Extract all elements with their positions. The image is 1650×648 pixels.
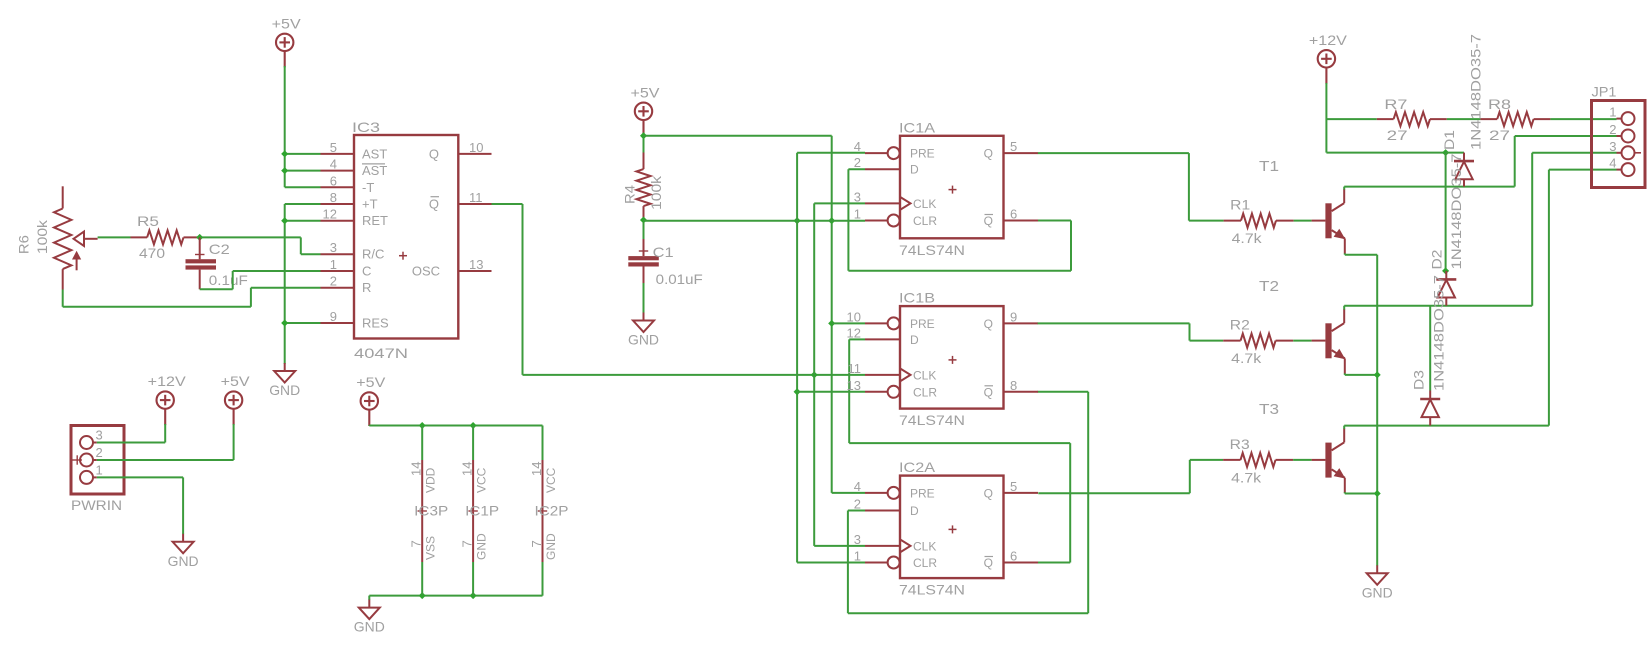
junction D2 top node (1442, 267, 1449, 274)
svg-text:1N4148DO35-7: 1N4148DO35-7 (1448, 153, 1464, 269)
junction clock junction (811, 371, 818, 378)
JP1 pin 4 pad (1622, 163, 1635, 176)
wire gates right v (542, 426, 544, 461)
transistor T1 NPN (1312, 220, 1326, 222)
PWRIN origin cross (73, 455, 83, 464)
wire pwr pin1 v (182, 477, 184, 534)
capacitor C1 0.01uF (643, 239, 645, 256)
pin R8 lead right (1534, 118, 1551, 120)
svg-text:R2: R2 (1230, 317, 1250, 333)
wire reset to IC2A pin1 (797, 562, 865, 564)
svg-text:PRE: PRE (910, 147, 935, 161)
wire IC1B D loop h1 (849, 338, 865, 340)
wire R4 top wire (643, 135, 645, 153)
T3 emitter arrow (1334, 468, 1346, 478)
svg-text:T1: T1 (1259, 158, 1279, 175)
svg-text:2: 2 (96, 445, 103, 460)
wire gates left gnd v (368, 596, 370, 600)
svg-text:100k: 100k (34, 219, 50, 254)
pin IC2P pin 14 VCC (542, 460, 544, 511)
svg-text:1N4148DO35-7: 1N4148DO35-7 (1468, 34, 1484, 150)
wire IC1A D loop h2 (848, 270, 1071, 272)
svg-text:9: 9 (1010, 309, 1017, 324)
pin IC1B pin 10 PRE (865, 322, 888, 324)
flip-flop IC2A 74LS74N body (900, 476, 1004, 578)
svg-text:2: 2 (330, 274, 337, 289)
pin IC1B pin 8 Qbar (1004, 391, 1039, 393)
pin IC2A pin 4 PRE (865, 492, 888, 494)
wire Q1 to R1 (1189, 220, 1224, 222)
pin IC3 pin 5 (AST) (321, 153, 355, 155)
wire phase2 row (1344, 305, 1532, 307)
junction gnd pin9 (281, 319, 288, 326)
wire +12V to R7 (1326, 118, 1376, 120)
svg-text:Q: Q (984, 317, 993, 331)
pin JP1 pin 1 stub (1617, 118, 1622, 120)
pin R3 lead left (1223, 459, 1240, 461)
wire Q2 to R2 (1190, 340, 1224, 342)
wire pwr pin1 h (97, 476, 183, 478)
pin R1 lead left (1224, 220, 1241, 222)
wire reset to IC1A pin4 (797, 152, 865, 154)
wire IC3P bottom wire (421, 562, 423, 596)
svg-text:AST: AST (362, 146, 387, 161)
wire +12V v (1325, 83, 1327, 153)
PWRIN pin 1 pad (80, 471, 93, 484)
IC2A CLR bubble (888, 557, 900, 569)
wire Q3 v (1189, 460, 1191, 493)
wire phase3 to JP1 pin4 (1549, 169, 1617, 171)
wire IC2A D loop h2 (848, 612, 1088, 614)
svg-text:D: D (910, 504, 919, 518)
svg-text:R3: R3 (1230, 436, 1250, 452)
svg-text:3: 3 (330, 240, 337, 255)
wire T1 emitter down (1344, 253, 1346, 254)
junction rail ic1p (470, 422, 477, 429)
resistor R5 470 (147, 230, 183, 244)
wire preset to IC1B pin10 (832, 322, 865, 324)
resistor R8 27 (1497, 112, 1533, 126)
diode D3 1N4148 (1429, 391, 1431, 400)
wire pwr pin3 h (97, 442, 165, 444)
svg-text:-T: -T (362, 180, 374, 195)
wire R5 to IC3 pin3 (301, 253, 321, 255)
wire IC3 Q11 v (522, 204, 524, 375)
wire IC2A Q6 wire (1038, 562, 1070, 564)
ground symbol emitter ground (1367, 565, 1388, 585)
wire IC3P top wire (421, 426, 423, 461)
IC1A CLK wedge (900, 197, 911, 210)
pin IC3 pin 4 (AST) (321, 170, 355, 172)
pin PWRIN pin 2 stub (93, 459, 97, 461)
svg-text:IC1A: IC1A (899, 119, 936, 135)
pin JP1 pin 2 stub (1617, 135, 1622, 137)
resistor R1 4.7k (1241, 214, 1276, 228)
pin IC2A pin 6 Qbar (1004, 562, 1039, 564)
ground symbol PWRIN ground (173, 534, 194, 554)
pin IC3P pin 14 VDD (421, 460, 423, 511)
pin R4 lead top (643, 153, 645, 170)
pin IC2A pin 1 CLR (865, 562, 888, 564)
svg-text:D: D (910, 163, 919, 177)
svg-text:GND: GND (628, 332, 659, 348)
wire R4 to C1 (643, 223, 645, 239)
IC1A CLR bubble (888, 215, 900, 227)
wire IC1B D loop v2 (1069, 443, 1071, 562)
svg-text:GND: GND (1362, 584, 1393, 600)
junction brail ic3p (419, 592, 426, 599)
wire phase1 riser (1514, 136, 1516, 187)
transistor T2 NPN (1312, 340, 1326, 342)
wire gnd branch pin12 (285, 220, 321, 222)
svg-text:7: 7 (460, 540, 475, 547)
svg-text:+12V: +12V (148, 373, 187, 389)
wire clock net long h (523, 374, 866, 376)
IC1B CLR bubble (888, 386, 900, 398)
svg-text:+5V: +5V (272, 15, 302, 31)
svg-text:CLR: CLR (913, 385, 937, 399)
wire pwr +12V v (164, 424, 166, 443)
pin IC1P pin 14 VCC (472, 460, 474, 511)
T1 emitter arrow (1334, 229, 1346, 239)
wire T3 collector up (1343, 426, 1345, 429)
IC U- IC3 4047N body (354, 135, 458, 339)
svg-text:9: 9 (330, 309, 337, 324)
svg-text:4: 4 (1609, 156, 1616, 171)
svg-text:13: 13 (847, 378, 861, 393)
wire emitter rail v (1376, 255, 1378, 566)
svg-text:+T: +T (362, 197, 378, 212)
wire +5V to IC3 vcc pins (284, 66, 286, 187)
IC1B PRE bubble (888, 317, 900, 329)
wire diode rail v (1445, 153, 1447, 271)
svg-text:2: 2 (1609, 122, 1616, 137)
svg-text:VDD: VDD (424, 467, 438, 493)
svg-text:3: 3 (96, 428, 103, 443)
JP1 pin 3 pad (1622, 146, 1635, 159)
pin IC2P pin 7 GND (542, 512, 544, 562)
pin IC1A pin 1 CLR (865, 220, 888, 222)
svg-text:D1: D1 (1441, 130, 1457, 150)
junction R4 bottom node (640, 216, 647, 223)
svg-text:D: D (910, 333, 919, 347)
pin IC3 pin 1 (C) (321, 270, 355, 272)
pin R7 lead left (1377, 118, 1394, 120)
wire IC1B Q8 wire (1038, 391, 1089, 393)
svg-text:R/C: R/C (362, 247, 384, 262)
svg-text:14: 14 (460, 462, 475, 476)
wire IC3 Q11 h (492, 203, 523, 205)
IC2A PRE bubble (888, 487, 900, 499)
wire preset to IC2A pin4 (832, 492, 865, 494)
wire C2 to pin1 b (232, 271, 234, 289)
pin R2 lead left (1223, 340, 1240, 342)
pin R2 lead right (1276, 340, 1294, 342)
junction rail ic3p (419, 422, 426, 429)
svg-text:RES: RES (362, 316, 389, 331)
flip-flop IC1B 74LS74N body (900, 306, 1004, 409)
supply symbol P+12V pwr (157, 391, 174, 425)
IC2A plus mark (949, 525, 957, 533)
wire clock to IC1A v (813, 203, 815, 546)
svg-text:5: 5 (330, 140, 337, 155)
PWRIN pin 2 pad (80, 454, 93, 467)
wire clock to IC2A h (814, 545, 865, 547)
svg-text:CLK: CLK (913, 197, 936, 211)
pin IC3 pin 6 (-T) (321, 186, 355, 188)
wire IC2A D loop v1 (847, 511, 849, 614)
pin IC1B pin 9 Q (1004, 322, 1039, 324)
svg-text:R: R (362, 280, 371, 295)
pin IC1A pin 3 CLK (865, 202, 900, 204)
svg-text:+5V: +5V (221, 373, 251, 389)
svg-text:10: 10 (847, 309, 861, 324)
svg-text:74LS74N: 74LS74N (899, 412, 965, 428)
wire Q3 to R3 (1190, 459, 1223, 461)
svg-text:PRE: PRE (910, 317, 935, 331)
connector PWRIN body (71, 426, 124, 495)
svg-text:RET: RET (362, 213, 388, 228)
pin R7 lead right (1430, 118, 1447, 120)
wire IC2P bottom wire (542, 562, 544, 596)
svg-text:4047N: 4047N (354, 345, 408, 361)
svg-text:Q: Q (984, 385, 993, 399)
resistor R7 27 (1394, 112, 1430, 126)
pin IC3 pin 2 (R) (321, 287, 355, 289)
svg-text:74LS74N: 74LS74N (899, 242, 965, 258)
IC2P origin cross (538, 506, 547, 515)
pin IC2A pin 5 Q (1004, 492, 1039, 494)
resistor R3 4.7k (1241, 453, 1276, 467)
capacitor C2 0.1uF (199, 237, 201, 259)
junction brail ic1p (470, 592, 477, 599)
svg-text:11: 11 (848, 361, 862, 376)
svg-text:GND: GND (544, 533, 558, 560)
svg-text:3: 3 (854, 189, 861, 204)
wire T1 collector up (1343, 187, 1345, 190)
svg-text:IC1B: IC1B (899, 290, 935, 306)
R6 wiper arrow (74, 232, 85, 247)
svg-text:Q: Q (984, 556, 993, 570)
svg-text:R7: R7 (1384, 96, 1407, 112)
svg-text:C2: C2 (209, 241, 230, 257)
svg-text:27: 27 (1387, 127, 1408, 143)
svg-text:8: 8 (1010, 378, 1017, 393)
wire phase2 riser (1531, 153, 1533, 306)
pin R4 lead bottom (643, 206, 645, 223)
wire IC2A D loop v2 (1087, 392, 1089, 614)
svg-text:Q: Q (429, 197, 439, 212)
wire IC1B D loop v1 (848, 339, 850, 443)
pin IC1B pin 11 CLK (865, 374, 900, 376)
svg-text:0.1uF: 0.1uF (209, 272, 248, 288)
svg-text:R5: R5 (137, 213, 159, 229)
wire IC1B D loop h2 (849, 442, 1070, 444)
svg-text:4.7k: 4.7k (1231, 350, 1262, 366)
wire phase1 to JP1 pin2 (1515, 135, 1617, 137)
C1 origin cross (639, 246, 648, 255)
svg-text:C1: C1 (653, 244, 674, 260)
R6 adjust arrow (76, 258, 78, 270)
potentiometer R6 100k (62, 186, 64, 208)
pin IC1A pin 5 Q (1004, 152, 1039, 154)
wire reset to IC1B pin13 (797, 391, 865, 393)
IC1A plus mark (949, 186, 957, 194)
pin R3 lead right (1276, 459, 1294, 461)
wire phase3 riser (1548, 170, 1550, 426)
wire Q1 h (1038, 152, 1189, 154)
pin IC1A pin 4 PRE (865, 152, 888, 154)
wire clock to IC1A h (814, 202, 865, 204)
wire rail to D1 (1446, 152, 1464, 154)
wire R2 to T2 (1293, 340, 1311, 342)
IC1B CLK wedge (900, 368, 911, 381)
svg-text:1: 1 (854, 549, 861, 564)
wire T2 emitter h (1345, 374, 1377, 376)
svg-text:GND: GND (354, 619, 385, 635)
svg-text:Q: Q (984, 147, 993, 161)
pin R8 lead left (1480, 118, 1497, 120)
svg-text:Q: Q (984, 486, 993, 500)
svg-text:14: 14 (409, 462, 424, 476)
junction emitter T3 (1374, 490, 1381, 497)
ground symbol C1 ground (633, 313, 654, 333)
wire preset rail v (831, 136, 833, 493)
pin JP1 pin 4 stub (1617, 169, 1622, 171)
C2 origin cross (195, 250, 205, 259)
wire pwr +5V v (233, 424, 235, 460)
svg-text:VCC: VCC (474, 467, 488, 493)
pin IC3 pin 10 (Q) (458, 153, 491, 155)
junction R4 top node (640, 132, 647, 139)
svg-text:1N4148DO35-7: 1N4148DO35-7 (1431, 275, 1447, 391)
supply symbol P+12V right (1318, 50, 1335, 84)
svg-text:VCC: VCC (544, 467, 558, 493)
pin IC1A pin 6 Qbar (1004, 220, 1039, 222)
wire IC1P top wire (472, 426, 474, 461)
wire C1 to gnd (643, 283, 645, 313)
svg-text:D2: D2 (1429, 249, 1445, 269)
junction +5V pin4 (281, 167, 288, 174)
pin IC2A pin 3 CLK (865, 545, 900, 547)
svg-text:13: 13 (469, 257, 483, 272)
IC1A PRE bubble (888, 147, 900, 159)
svg-text:R8: R8 (1488, 96, 1511, 112)
ground symbol IC3 ground (274, 363, 295, 383)
wire R6 bottom h (63, 306, 251, 308)
transistor T3 NPN (1312, 459, 1326, 461)
JP1 pin 2 pad (1622, 130, 1635, 143)
svg-text:11: 11 (469, 190, 483, 205)
wire R5 to IC3 riser h (200, 236, 301, 238)
wire IC1A D loop h1 (848, 168, 865, 170)
wire D3 feed (1429, 306, 1431, 391)
wire C2 to pin1 c (233, 270, 321, 272)
svg-text:4: 4 (854, 139, 861, 154)
svg-text:IC3: IC3 (352, 119, 380, 135)
svg-text:1: 1 (854, 207, 861, 222)
svg-text:IC1P: IC1P (465, 502, 499, 518)
wire Q3 h (1038, 492, 1190, 494)
svg-text:Q: Q (429, 146, 439, 161)
svg-text:12: 12 (847, 325, 861, 340)
junction gnd pin12 (281, 217, 288, 224)
svg-text:4.7k: 4.7k (1232, 230, 1263, 246)
pin IC2A pin 2 D (865, 510, 900, 512)
wire pwr pin2 h (97, 459, 234, 461)
diode D1 1N4148 (1463, 153, 1465, 162)
pin IC3P pin 7 VSS (421, 512, 423, 562)
svg-text:4: 4 (854, 479, 861, 494)
wire Q2 v (1189, 323, 1191, 340)
wire R3 to T3 (1293, 459, 1312, 461)
svg-text:1: 1 (1609, 105, 1616, 120)
svg-text:5: 5 (1010, 139, 1017, 154)
junction diode rail node (1442, 149, 1449, 156)
pin IC3 pin 13 (OSC) (458, 270, 491, 272)
svg-text:GND: GND (168, 553, 199, 569)
wire gates top rail a (368, 425, 370, 428)
wire Q2 h (1038, 322, 1190, 324)
svg-text:R1: R1 (1230, 197, 1250, 213)
pin R5 lead right (184, 236, 200, 238)
wire R6 wiper to R5 (98, 236, 131, 238)
IC1P origin cross (468, 506, 477, 515)
svg-text:GND: GND (269, 382, 300, 398)
svg-text:IC2P: IC2P (535, 502, 569, 518)
junction reset ic1b dot (794, 388, 801, 395)
wire R6 to pin2 h (251, 287, 321, 289)
pin IC1A pin 2 D (865, 168, 900, 170)
wire gates top rail (369, 425, 542, 427)
svg-text:D3: D3 (1411, 370, 1427, 390)
op-amp U1 plus mark IC3 origin (399, 252, 407, 260)
wire R6 to pin2 riser (250, 288, 252, 307)
svg-text:27: 27 (1489, 127, 1510, 143)
pin IC1B pin 13 CLR (865, 391, 888, 393)
pin IC3 pin 3 (R/C) (321, 253, 355, 255)
svg-text:10: 10 (469, 140, 483, 155)
wire T2 collector up (1343, 306, 1345, 310)
pin IC1B pin 12 D (865, 338, 900, 340)
wire +5V branch pin6 (285, 186, 321, 188)
wire IC2P top wire (542, 426, 544, 461)
wire gnd branch pin9 (285, 322, 321, 324)
wire T3 emitter h (1345, 493, 1377, 495)
supply symbol P+5V gates (361, 392, 378, 426)
svg-text:6: 6 (1010, 207, 1017, 222)
svg-text:3: 3 (1609, 139, 1616, 154)
flip-flop IC1A 74LS74N body (900, 136, 1004, 239)
wire gates bottom rail (369, 595, 542, 597)
svg-text:1: 1 (96, 462, 103, 477)
IC2A CLK wedge (900, 539, 911, 552)
wire +5V branch pin4 (285, 170, 321, 172)
IC1B plus mark (949, 356, 957, 364)
wire IC2A D loop h1 (848, 510, 865, 512)
junction R5 C2 node (196, 234, 203, 241)
svg-text:T3: T3 (1259, 401, 1279, 418)
wire T1 emitter h (1345, 254, 1377, 256)
pin JP1 pin 3 stub (1617, 152, 1622, 154)
connector JP1 body (1592, 101, 1646, 188)
diode D2 1N4148 (1445, 271, 1447, 280)
JP1 pin 1 pad (1622, 112, 1635, 125)
svg-text:+5V: +5V (356, 374, 386, 390)
svg-text:1: 1 (330, 257, 337, 272)
wire R7 to R8 (1447, 118, 1481, 120)
pin IC3 pin 8 (+T) (321, 203, 355, 205)
